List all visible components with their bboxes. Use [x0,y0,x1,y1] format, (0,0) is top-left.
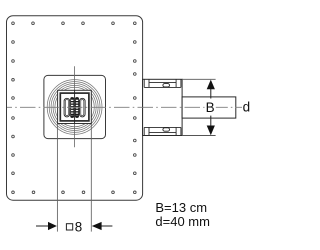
grate center divider [74,91,76,124]
bottom clamp capsule [163,128,170,131]
grate outer rim square [58,90,92,123]
outlet socket body [143,79,183,135]
screw holes bottom row [12,191,136,194]
grate thick dark frame [60,93,89,121]
outlet pipe [182,97,236,118]
B extension line bottom [182,135,216,137]
square-8 leader left [36,225,48,227]
square-8 leader right [101,225,112,227]
mounting plate (rounded flange plate) [7,16,143,201]
top clamp bar [144,79,181,87]
B arrow up [207,80,215,90]
screw holes right column [134,41,137,175]
svg-text:d=40 mm: d=40 mm [155,214,210,229]
square-8 arrow left (points right) [48,222,57,230]
B extension line top [182,78,216,80]
screw holes top row [12,22,136,25]
grate right capsule slot [80,98,86,117]
top clamp capsule [163,84,170,87]
extension line right (square 8 dimension) [90,124,92,232]
grate left capsule slot [64,98,70,117]
grate left ladder slot [71,97,74,117]
vertical centerline of drain [74,66,76,147]
drain outer square (frame around grate) [44,75,106,138]
svg-text:8: 8 [75,220,82,235]
svg-text:d: d [243,100,250,115]
square symbol [66,224,72,230]
extension line left (square 8 dimension) [56,124,58,232]
screw holes left column [12,41,15,175]
horizontal centerline (dash-dot) [7,106,242,108]
svg-text:B: B [206,100,215,115]
svg-text:B=13 cm: B=13 cm [155,200,207,215]
concentric drain body circles [47,80,102,135]
B arrow down [207,126,215,136]
bottom clamp bar [144,127,181,135]
B dimension line [210,89,212,99]
square-8 arrow right (points left) [92,222,102,230]
grate right ladder slot [75,97,78,117]
